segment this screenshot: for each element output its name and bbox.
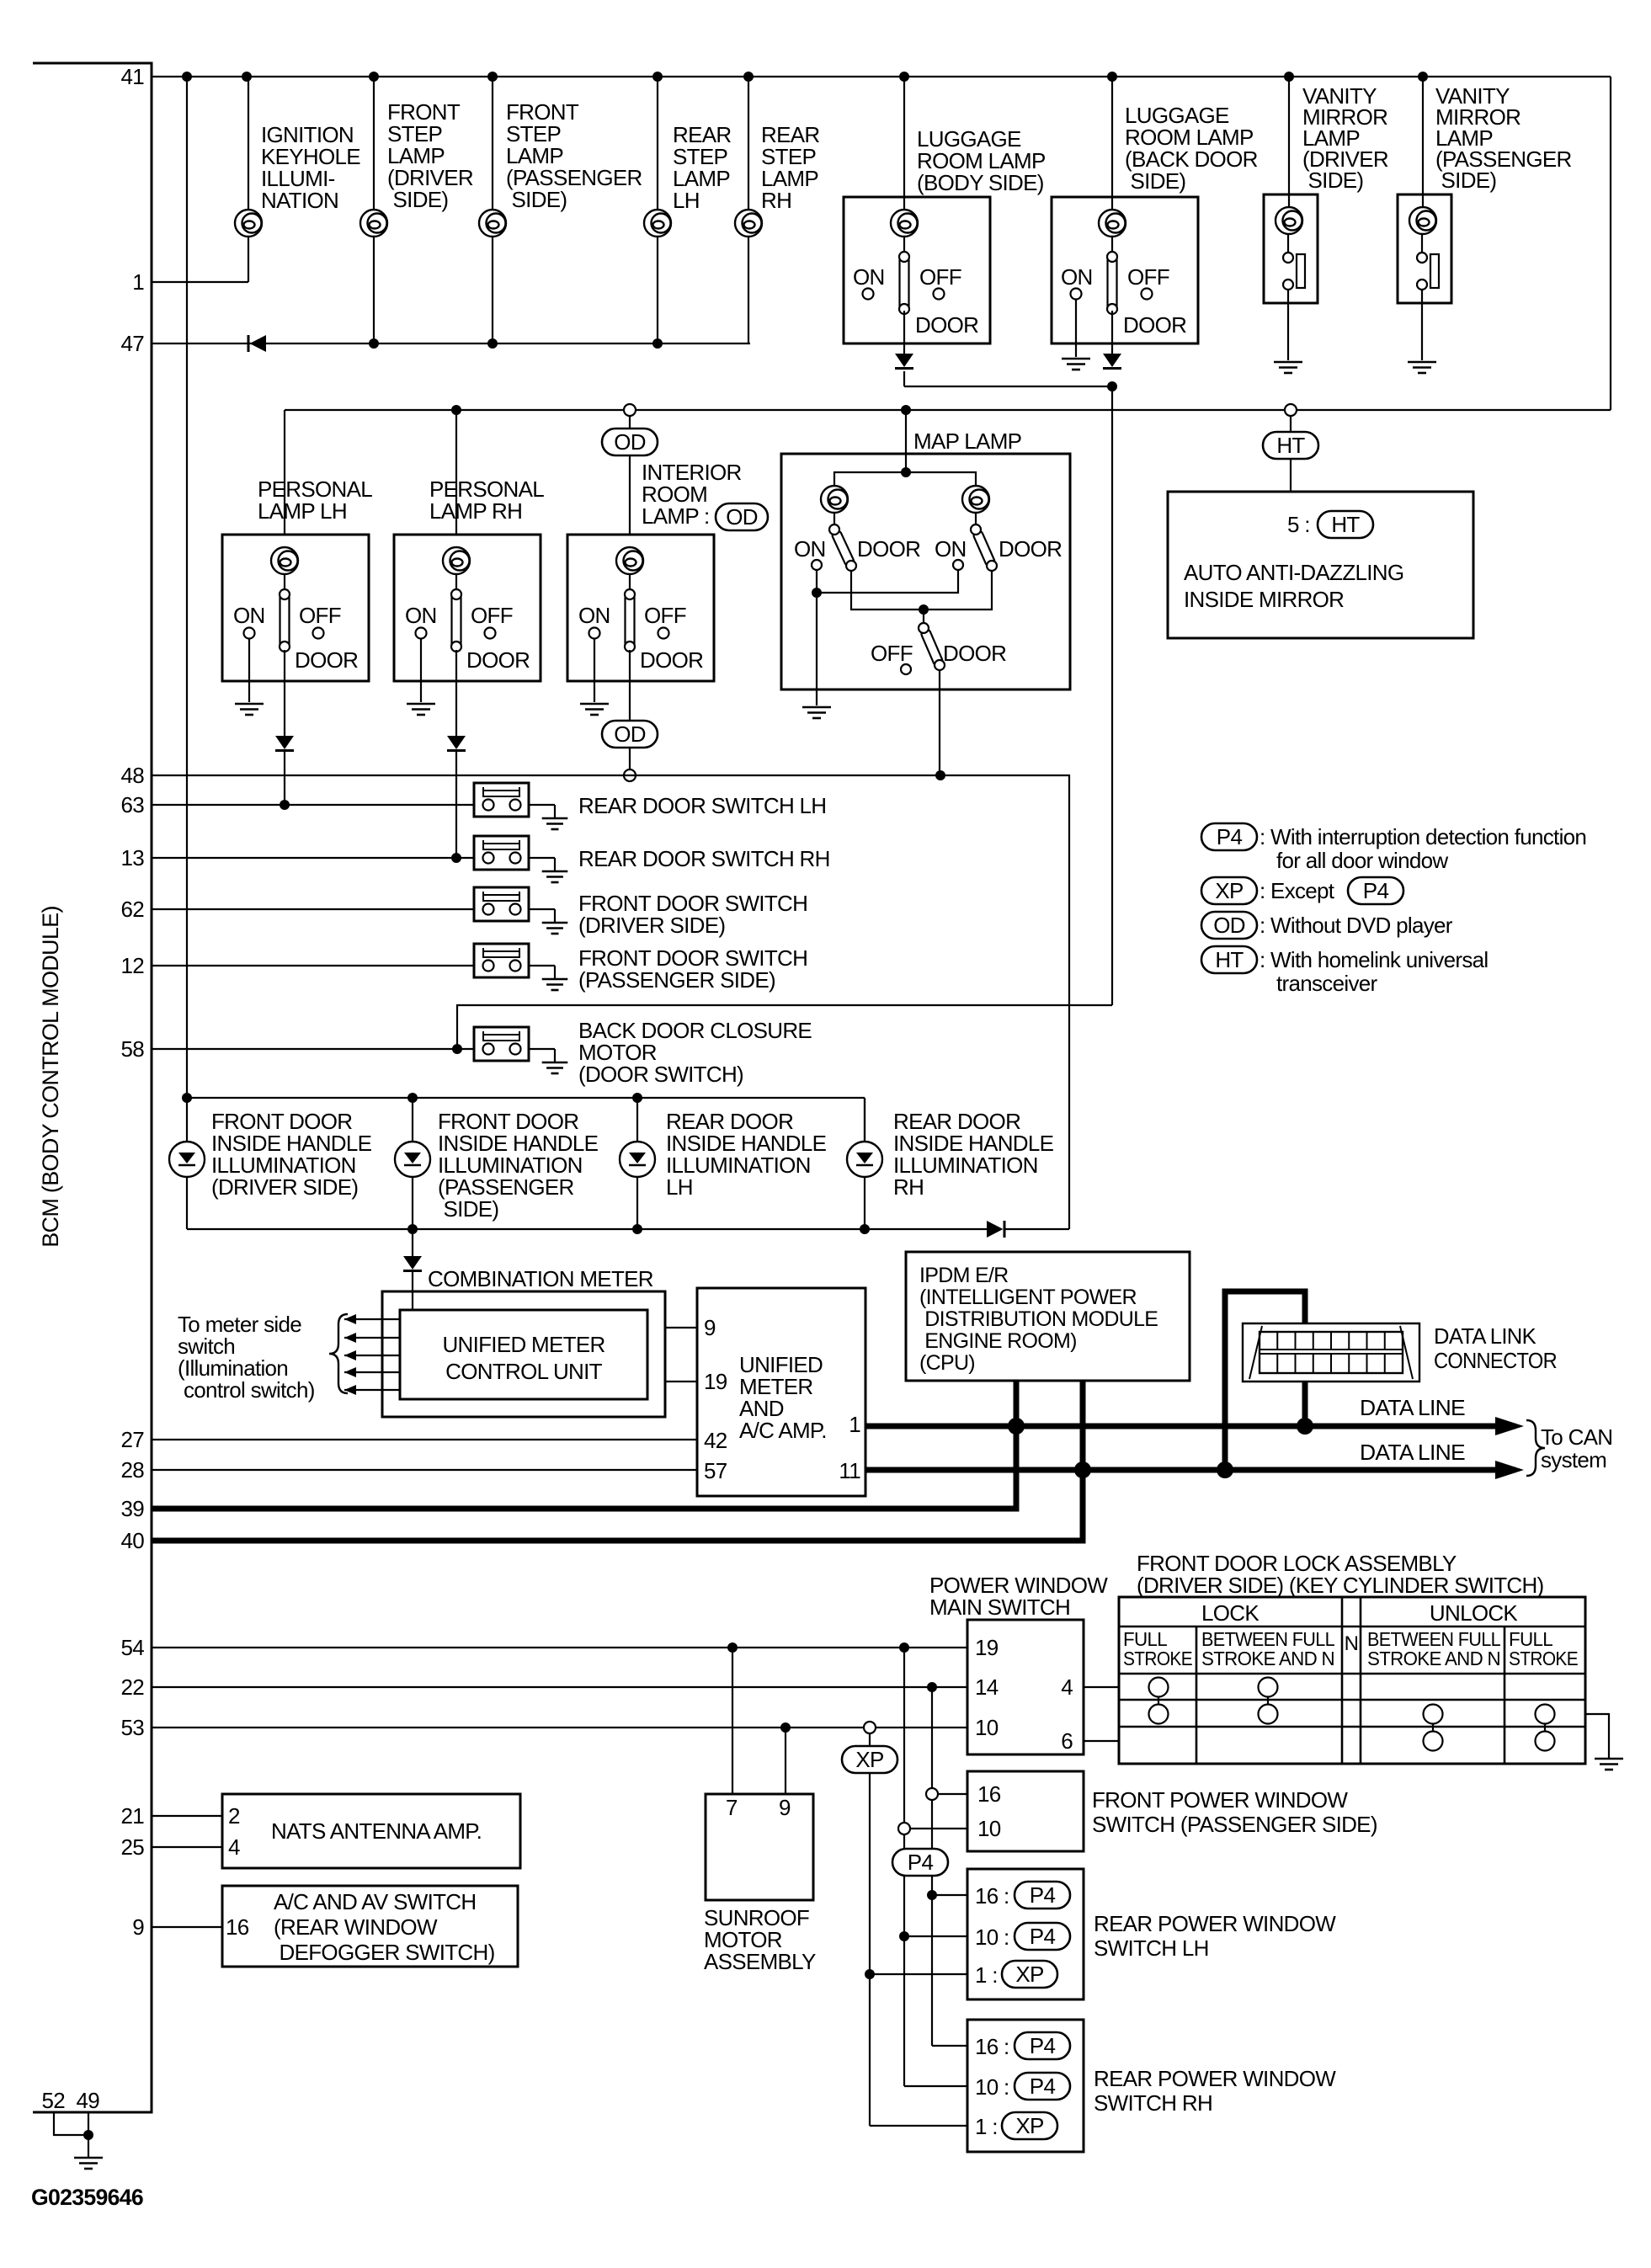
svg-text:: With homelink universal: : With homelink universal [1260,947,1489,972]
svg-text:XP: XP [855,1747,883,1772]
BCM pin numbers [120,64,144,1940]
svg-text:LAMP :: LAMP : [642,503,710,529]
svg-text:42: 42 [704,1428,727,1453]
wire pin 49 [88,2112,89,2135]
table key cylinder grid [1119,1597,1585,1764]
svg-text:54: 54 [120,1635,144,1660]
junction dot map DOOR [919,604,929,615]
wire combination meter feed [412,1229,413,1256]
label unified meter and AC amp [739,1352,827,1443]
wire pw pin4 [1084,1686,1119,1688]
wire vanity passenger drop [1422,77,1424,210]
svg-text:22: 22 [120,1674,144,1700]
wire front step lamp driver [373,77,375,343]
wire LED riser 2 [412,1098,413,1229]
svg-text:19: 19 [975,1635,999,1660]
svg-text:STROKE AND N: STROKE AND N [1201,1648,1334,1669]
label vanity passenger [1435,83,1572,193]
personal lamp RH box [394,535,541,702]
svg-text:40: 40 [120,1528,144,1553]
tag OD interior bottom [602,721,658,748]
wire pin 40 [152,1470,1083,1541]
lamp vanity passenger [1409,207,1436,234]
svg-text:49: 49 [76,2088,99,2113]
wire pin 22 [152,1686,967,1688]
wire map master out [939,670,940,775]
svg-text:UNLOCK: UNLOCK [1430,1600,1519,1626]
wire interior to 48 [629,748,631,769]
label inside handle 1 [211,1109,372,1200]
wire personal LH to 63 [284,752,285,805]
ground vanity passenger [1408,362,1436,373]
junction dot map lamp feed [901,405,911,454]
wire pin 9 line [152,1926,222,1928]
junction dot LH1 [865,1969,875,1979]
lamp map LH [821,486,848,513]
svg-text:OFF: OFF [644,603,686,628]
label rear step RH [761,122,819,213]
svg-text:UNIFIED METER: UNIFIED METER [442,1332,604,1357]
legend HT text [1260,947,1489,996]
svg-text:SIDE): SIDE) [438,1196,498,1222]
switch vanity passenger [1417,234,1439,303]
svg-text:5 :: 5 : [1287,512,1310,537]
svg-text:XP: XP [1015,1962,1043,1987]
wire rear step lamp LH [657,77,658,343]
svg-text:(DOOR SWITCH): (DOOR SWITCH) [578,1062,743,1087]
contacts unlock between [1424,1705,1443,1751]
label door switch 63 [578,793,826,818]
contact ON map RH [953,560,963,570]
junction dots line54 [727,1642,909,1653]
svg-text:LOCK: LOCK [1201,1600,1260,1626]
svg-text:BCM (BODY CONTROL MODULE): BCM (BODY CONTROL MODULE) [38,906,63,1248]
box unified meter control unit [400,1310,647,1399]
wire LED bottom rail [187,1228,1069,1230]
junction dot LH16 [927,1890,937,1900]
junction dot ground [83,2130,93,2140]
label auto anti-dazzling [1184,560,1403,612]
legend P4 [1201,823,1257,850]
legend P4 text [1260,824,1586,873]
lamp rear step LH [644,210,671,237]
svg-text:AUTO ANTI-DAZZLING: AUTO ANTI-DAZZLING [1184,560,1403,585]
label G02359646 [31,2185,144,2210]
svg-text:OFF: OFF [471,603,513,628]
label inside handle 4 [893,1109,1054,1200]
svg-text:SIDE): SIDE) [387,187,448,212]
label rear step LH [673,122,731,213]
ground luggage backdoor [1062,359,1090,370]
svg-text:27: 27 [120,1427,144,1452]
wire IPDM stub1 [1014,1381,1020,1426]
wire meter to amp 9 [665,1327,697,1328]
ground key cylinder [1595,1759,1623,1770]
wire pin 53 [152,1727,967,1728]
wire pin 47 [152,343,750,344]
svg-text:(CPU): (CPU) [919,1351,975,1375]
table column headers [1123,1628,1578,1669]
label data line 1 [1360,1395,1465,1420]
legend XP text [1260,878,1335,903]
lamp ignition keyhole [235,210,262,237]
wire map ON rail [817,570,958,593]
label IPDM [919,1264,1158,1375]
wire LED riser 3 [636,1098,638,1229]
junction corner personal LH [284,410,285,535]
tag OD interior top [602,429,658,455]
svg-text:16: 16 [226,1914,249,1940]
svg-text:RH: RH [893,1174,924,1200]
label front power window switch [1092,1787,1377,1837]
contact OFF map [901,664,911,674]
label map lamp [913,429,1021,454]
lamp rear step RH [735,210,762,237]
label data line 2 [1360,1440,1465,1465]
svg-text:12: 12 [120,953,144,978]
junction dots LED bottom [407,1224,870,1234]
junction dot 63 personal LH [280,800,290,810]
wire pin 1 [152,281,248,283]
svg-text:ON: ON [935,536,967,562]
wire luggage backdoor inner [1111,237,1113,257]
svg-text:ON: ON [405,603,437,628]
junction dot LH10 [899,1931,909,1941]
svg-text:57: 57 [704,1458,727,1483]
wire interior drop [629,455,631,535]
wire map ground drop [816,593,818,705]
svg-text:MAP LAMP: MAP LAMP [913,429,1021,454]
label ON map LH [794,536,826,562]
wire ignition drop [248,77,249,282]
label ON map RH [935,536,967,562]
svg-text:N: N [1345,1632,1359,1655]
svg-text:DOOR: DOOR [295,647,358,673]
svg-text:10 :: 10 : [975,1925,1009,1950]
svg-text:ON: ON [233,603,265,628]
ground vanity driver [1274,362,1302,373]
svg-text:DOOR: DOOR [857,536,920,562]
wire pin 52 [54,2112,88,2135]
label door switch 58 [578,1018,812,1087]
wire LH1 stub [870,1973,967,1975]
ground personal RH [407,704,435,715]
meter arrows [344,1314,401,1395]
wire DLC riser right [1302,1377,1308,1426]
svg-text:47: 47 [120,331,144,356]
box NATS antenna amp [222,1794,520,1868]
contact ON luggage body [863,289,874,300]
svg-text:21: 21 [120,1803,144,1829]
svg-text:SWITCH (PASSENGER SIDE): SWITCH (PASSENGER SIDE) [1092,1812,1377,1837]
svg-text:(REAR WINDOW: (REAR WINDOW [274,1914,438,1940]
svg-text:IPDM E/R: IPDM E/R [919,1264,1009,1287]
svg-text:FRONT POWER WINDOW: FRONT POWER WINDOW [1092,1787,1348,1813]
wire LH16 stub [932,1894,967,1896]
wire luggage backdoor drop [1111,77,1113,210]
svg-text:OD: OD [614,721,646,747]
svg-text:25: 25 [120,1834,144,1860]
svg-text:OFF: OFF [299,603,341,628]
junction dot DL1 39 [1008,1418,1025,1435]
svg-text:(DRIVER SIDE): (DRIVER SIDE) [578,913,725,938]
label personal lamp RH [429,476,544,524]
svg-text:16 :: 16 : [975,1883,1009,1909]
svg-text:DATA LINE: DATA LINE [1360,1395,1465,1420]
tag P4 pw [892,1849,948,1876]
wire LED riser 4 [864,1098,865,1229]
svg-text:16: 16 [977,1781,1001,1807]
svg-text:G02359646: G02359646 [31,2185,144,2210]
svg-text:: With interruption detection: : With interruption detection function [1260,824,1586,849]
legend XP [1201,877,1257,904]
ground BCM [74,2158,103,2169]
lamp front step driver [360,210,387,237]
tag OD interior label [716,503,768,530]
LED inside handle 3 [620,1142,655,1177]
svg-text:DATA LINK: DATA LINK [1434,1323,1536,1349]
connector line53 XP [864,1722,876,1733]
box power window main switch [967,1620,1084,1754]
svg-text:: Without DVD player: : Without DVD player [1260,913,1453,938]
wire pin 48 [152,775,1069,1229]
contact OFF luggage backdoor [1142,289,1153,300]
svg-text:16 :: 16 : [975,2034,1009,2059]
wire front step lamp passenger [492,77,493,343]
diode luggage backdoor [1103,354,1121,369]
wire luggage body door out [903,311,905,355]
wire table ground [1585,1714,1609,1758]
switch map RH [971,524,997,571]
svg-text:OFF: OFF [871,641,913,666]
svg-text:58: 58 [120,1036,144,1062]
label sunroof motor assembly [704,1905,816,1974]
box map lamp [781,454,1070,689]
svg-text:OD: OD [726,504,758,530]
LED inside handle 2 [395,1142,430,1177]
brace meter [329,1314,348,1393]
svg-text:OD: OD [614,429,646,455]
svg-text:LAMP RH: LAMP RH [429,498,522,524]
svg-text:7: 7 [726,1795,738,1820]
label to CAN system [1541,1424,1612,1472]
wire interior od [629,416,631,429]
LED inside handle 4 [847,1142,882,1177]
label front step passenger [506,99,642,212]
label luggage room lamp back door [1125,103,1258,194]
box rear pw LH [967,1869,1084,1999]
wire pin 21 [152,1815,222,1817]
svg-text:RH: RH [761,188,791,213]
wire xp drop2 [869,1773,871,1974]
wire p10 drop [903,1648,905,1936]
box rear pw RH [967,2020,1084,2152]
svg-text:14: 14 [975,1674,999,1700]
wire data line 1 [865,1424,1515,1429]
wire luggage backdoor door out [1111,311,1113,355]
pins rear pw LH [975,1882,1070,1988]
wire xp drop [869,1733,871,1747]
diode LED out [987,1221,1004,1238]
svg-text:(DRIVER SIDE): (DRIVER SIDE) [211,1174,358,1200]
svg-text:transceiver: transceiver [1276,971,1377,996]
svg-text:4: 4 [1061,1674,1073,1700]
svg-text:DOOR: DOOR [999,536,1062,562]
wire front pw stubs [910,1794,967,1829]
wire pin 25 [152,1846,222,1848]
wire map RH to switch [975,513,977,527]
contacts lock full stroke [1149,1678,1169,1724]
junction dots on 47 [369,338,663,349]
diode personal RH [447,736,466,751]
svg-text:MAIN SWITCH: MAIN SWITCH [929,1595,1070,1620]
svg-text:(INTELLIGENT POWER: (INTELLIGENT POWER [919,1286,1137,1309]
wire pin 58 [152,1048,474,1050]
svg-text:REAR DOOR SWITCH LH: REAR DOOR SWITCH LH [578,793,826,818]
svg-text:SIDE): SIDE) [1435,168,1496,193]
svg-text:for all door window: for all door window [1276,848,1448,873]
wire meter to amp 19 [665,1381,697,1382]
svg-text:system: system [1541,1447,1606,1472]
svg-text:SIDE): SIDE) [506,187,567,212]
box vanity mirror passenger [1398,194,1451,303]
svg-text:DEFOGGER SWITCH): DEFOGGER SWITCH) [274,1940,495,1965]
diode D47 [248,335,266,352]
label 5 HT [1287,511,1373,538]
label ON luggage body [853,264,885,290]
wire mirror ht [1290,416,1292,432]
connector interior 48 [624,769,636,781]
legend XP P4 [1348,877,1403,904]
switch map master [919,623,945,670]
wire personal RH to 13 [455,752,457,858]
wire sunroof pin9 [785,1728,786,1794]
svg-text:OFF: OFF [919,264,961,290]
box unified meter and AC amp [697,1288,865,1496]
label DOOR luggage backdoor [1123,312,1186,338]
arrow data line 2 [1495,1461,1524,1479]
contact ON luggage backdoor [1071,289,1082,300]
diode personal LH [275,736,294,751]
svg-text:1 :: 1 : [975,2114,998,2139]
lamp luggage backdoor [1099,210,1126,237]
box auto anti-dazzling mirror [1168,492,1473,638]
label ignition keyhole [261,122,360,213]
svg-text:DOOR: DOOR [640,647,703,673]
label front step driver [387,99,473,212]
junction dot 48 map [935,770,945,780]
svg-text:XP: XP [1215,878,1243,903]
label to meter side switch [178,1312,315,1403]
svg-text:P4: P4 [1217,824,1243,849]
ground map lamp [802,707,831,718]
label OFF map [871,641,913,666]
wire sunroof pin7 [732,1648,733,1794]
BCM (Body Control Module) bracket [33,63,152,2112]
wire backdoor closure link [457,1005,1112,1049]
svg-text:ON: ON [578,603,610,628]
svg-text:1: 1 [849,1412,860,1437]
svg-text:ON: ON [1061,264,1093,290]
svg-text:XP: XP [1015,2113,1043,2138]
svg-text:OFF: OFF [1127,264,1169,290]
box combination meter [382,1291,665,1417]
wire p16 drop [931,1687,933,1895]
junction dot DL2 40 [1074,1461,1091,1478]
door switch row 62 [474,887,567,934]
LED inside handle 1 [169,1142,205,1177]
wire map top rail [834,472,976,485]
wire map master feed [923,610,924,626]
label data link connector [1434,1323,1557,1373]
label door switch 13 [578,846,830,871]
svg-text:HT: HT [1331,512,1360,537]
svg-text:REAR POWER WINDOW: REAR POWER WINDOW [1094,2066,1336,2091]
switch vanity driver [1283,234,1305,303]
legend HT [1201,946,1257,973]
pins NATS [228,1803,240,1860]
pins pw main left [975,1635,999,1740]
label inside handle 3 [666,1109,827,1200]
label front door lock assembly [1137,1551,1544,1598]
door switch row 13 [474,836,567,882]
pin AC 16 [226,1914,249,1940]
label vanity driver [1302,83,1388,193]
label OFF luggage backdoor [1127,264,1169,290]
door switch row 58 [474,1027,567,1073]
svg-text:1 :: 1 : [975,1962,998,1988]
junction dot line53 sunroof [780,1722,791,1733]
wire RH10 drop [904,1936,967,2086]
label door switch 62 [578,891,807,938]
svg-text:9: 9 [704,1315,716,1340]
wire vanity passenger ground [1421,303,1423,360]
svg-text:A/C AMP.: A/C AMP. [739,1418,827,1443]
svg-text:REAR POWER WINDOW: REAR POWER WINDOW [1094,1911,1336,1936]
diode luggage body [895,354,913,369]
wire pin 13 [152,857,474,859]
legend OD text [1260,913,1453,938]
label ON luggage backdoor [1061,264,1093,290]
junction dots LED top [182,1093,642,1103]
personal lamp LH box [222,535,369,702]
wire data line 2 [865,1467,1515,1473]
svg-text:39: 39 [120,1496,144,1521]
wire interior feed line [285,409,1611,411]
junction dot luggage [1107,381,1117,391]
svg-text:DISTRIBUTION MODULE: DISTRIBUTION MODULE [919,1307,1158,1331]
box IPDM E/R [906,1252,1190,1381]
junction dot map ON [812,588,822,598]
svg-text:: Except: : Except [1260,878,1335,903]
switch map LH [829,524,856,571]
switch luggage body [899,252,909,314]
junction dot DL2 DLC [1217,1461,1233,1478]
wire rear step lamp RH [748,77,749,343]
svg-text:P4: P4 [1363,878,1389,903]
svg-text:(PASSENGER SIDE): (PASSENGER SIDE) [578,967,775,993]
svg-text:P4: P4 [1030,2074,1056,2099]
switch luggage backdoor [1107,252,1117,314]
wire map LH to switch [833,513,835,527]
wire RH1 drop [870,1974,967,2126]
svg-text:P4: P4 [1030,1882,1056,1908]
svg-text:HT: HT [1215,947,1244,972]
wire backdoor net down [1111,386,1113,1005]
wire interior door out [629,650,631,721]
svg-text:(DRIVER SIDE) (KEY CYLINDER SW: (DRIVER SIDE) (KEY CYLINDER SWITCH) [1137,1573,1544,1598]
svg-text:28: 28 [120,1457,144,1483]
